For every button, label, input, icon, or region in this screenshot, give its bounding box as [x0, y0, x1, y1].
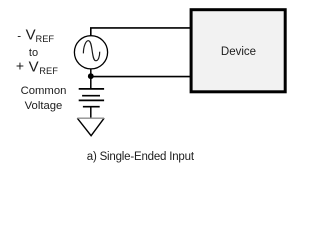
battery plate 3 long	[79, 99, 104, 101]
wire: battery to ground	[90, 107, 92, 118]
device box	[191, 10, 285, 92]
voltage source VS sine wave	[83, 41, 99, 61]
wire: source bottom to junction	[90, 69, 92, 77]
svg-text:Device: Device	[221, 46, 256, 58]
ground symbol	[77, 118, 104, 136]
svg-text:a) Single-Ended Input: a) Single-Ended Input	[87, 151, 195, 163]
svg-text:Voltage: Voltage	[25, 100, 63, 112]
svg-text:-VREF: -VREF	[17, 27, 54, 44]
wire: junction to battery	[90, 77, 92, 89]
svg-text:Common: Common	[21, 85, 67, 97]
wire: source top to device	[91, 28, 191, 36]
battery plate 2 short	[82, 95, 100, 97]
wire: junction to device (bottom wire)	[91, 76, 191, 78]
svg-text:to: to	[29, 47, 38, 59]
battery plate 4 short	[83, 106, 100, 108]
svg-text:+VREF: +VREF	[16, 57, 58, 76]
ground top edge (light)	[77, 117, 104, 119]
battery (common voltage) plate 1 long	[79, 88, 104, 90]
voltage source VS circle	[74, 36, 107, 69]
node junction dot	[88, 73, 94, 79]
